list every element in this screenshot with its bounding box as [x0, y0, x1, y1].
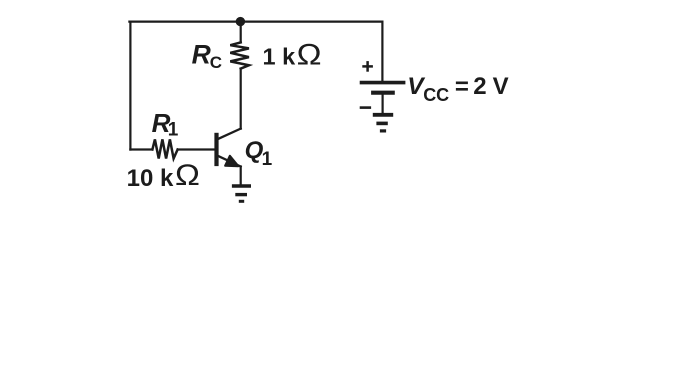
resistor RC: [230, 42, 249, 68]
svg-text:Ω: Ω: [175, 159, 200, 192]
Q1 emitter slant: [218, 156, 241, 167]
svg-text:R: R: [192, 40, 211, 70]
ground (emitter): [232, 186, 251, 201]
wire right vertical: [381, 22, 383, 81]
wire base left segment: [130, 148, 152, 150]
svg-text:1: 1: [168, 120, 179, 141]
Q1 base bar: [214, 133, 218, 166]
node junction dot: [236, 17, 245, 26]
Q1 collector slant: [218, 129, 241, 140]
ground (battery): [373, 115, 393, 131]
wire emitter vertical: [240, 167, 242, 185]
wire collector vertical: [240, 69, 242, 129]
svg-text:Ω: Ω: [297, 38, 322, 71]
transistor Q1: [214, 129, 240, 185]
resistor R1: [152, 139, 177, 158]
svg-text:=: =: [455, 74, 469, 101]
wire left vertical: [129, 22, 131, 150]
wire battery to ground: [382, 95, 384, 113]
battery plate short: [371, 91, 395, 95]
wire top horizontal: [129, 21, 382, 23]
Q1 emitter arrowhead: [225, 156, 238, 166]
svg-text:1 k: 1 k: [263, 43, 297, 69]
svg-text:10 k: 10 k: [127, 165, 174, 192]
svg-text:C: C: [210, 53, 222, 72]
battery VCC: [360, 83, 406, 93]
svg-text:V: V: [493, 73, 509, 100]
wire RC top lead: [240, 22, 242, 43]
svg-text:CC: CC: [423, 85, 449, 105]
svg-text:1: 1: [262, 149, 273, 170]
battery plate long: [360, 81, 406, 85]
plus sign: [362, 61, 373, 72]
svg-text:2: 2: [473, 73, 486, 100]
minus sign: [360, 106, 371, 109]
wire base right segment: [178, 148, 215, 150]
